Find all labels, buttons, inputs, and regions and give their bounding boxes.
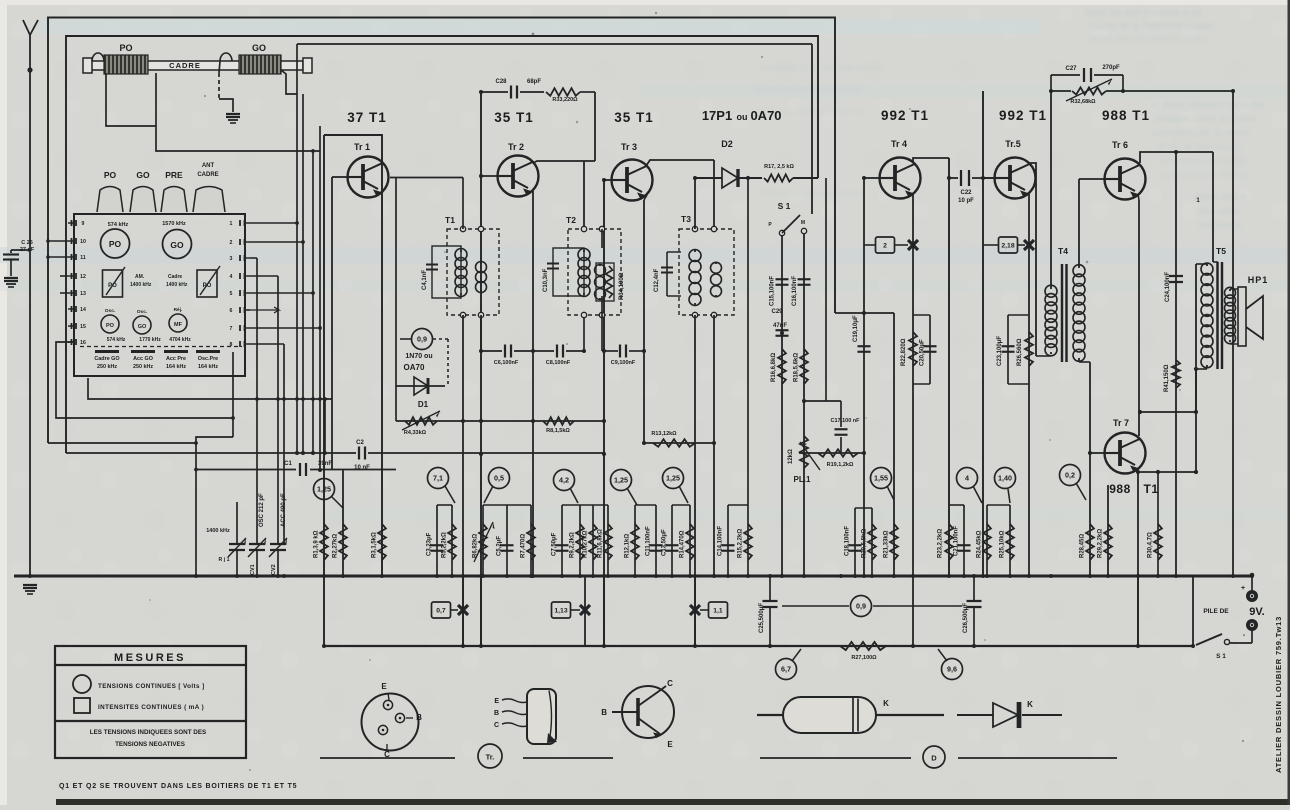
svg-text:B: B [494, 710, 499, 717]
svg-text:R j 1: R j 1 [219, 557, 230, 563]
svg-text:Osc.: Osc. [105, 308, 115, 314]
svg-text:2: 2 [230, 240, 233, 246]
svg-text:E: E [494, 698, 499, 705]
svg-text:R4,33kΩ: R4,33kΩ [404, 430, 427, 436]
svg-text:35 T1: 35 T1 [494, 110, 534, 125]
svg-text:5: 5 [230, 291, 233, 297]
svg-text:7: 7 [230, 326, 233, 332]
svg-text:0,5: 0,5 [494, 474, 504, 483]
svg-text:PO: PO [109, 239, 122, 249]
svg-text:574 kHz: 574 kHz [108, 222, 129, 228]
svg-text:9,6: 9,6 [947, 665, 957, 674]
svg-text:E: E [667, 740, 673, 749]
svg-text:10: 10 [80, 239, 86, 245]
svg-text:C27: C27 [1065, 66, 1077, 72]
svg-text:radio et à l'électronique: radio et à l'électronique [1090, 20, 1213, 32]
svg-text:abonnez-vous dès: abonnez-vous dès [1160, 156, 1248, 167]
svg-text:1400 kHz: 1400 kHz [206, 528, 230, 534]
svg-text:LES TENSIONS INDIQUEES SONT: LES TENSIONS INDIQUEES SONT DES [90, 729, 207, 736]
svg-text:250 kHz: 250 kHz [97, 364, 117, 370]
svg-text:S 1: S 1 [778, 201, 791, 211]
svg-text:C16,100nF: C16,100nF [792, 276, 798, 306]
svg-text:Acc Pre: Acc Pre [166, 356, 186, 362]
svg-text:6,7: 6,7 [781, 665, 791, 674]
svg-text:R11,6,8kΩ: R11,6,8kΩ [598, 529, 604, 558]
svg-text:C25,500μF: C25,500μF [759, 603, 765, 633]
svg-text:OSC 212 pF: OSC 212 pF [259, 493, 265, 527]
svg-text:68pF: 68pF [527, 79, 541, 85]
svg-text:réalisation des amateurs: réalisation des amateurs [758, 188, 864, 198]
svg-text:16: 16 [80, 340, 86, 346]
svg-text:complète de la radio: complète de la radio [1152, 128, 1249, 139]
svg-text:Radio Plans: Radio Plans [1195, 192, 1247, 202]
svg-text:992 T1: 992 T1 [881, 108, 929, 123]
svg-text:1,40: 1,40 [998, 474, 1012, 483]
svg-text:10 pF: 10 pF [958, 198, 974, 204]
svg-text:C29: C29 [771, 309, 783, 315]
svg-text:6: 6 [230, 308, 233, 314]
svg-text:R18,5,6kΩ: R18,5,6kΩ [794, 353, 800, 382]
svg-text:E: E [381, 682, 387, 691]
svg-text:2,18: 2,18 [1001, 243, 1014, 250]
svg-text:12kΩ: 12kΩ [788, 449, 794, 464]
svg-text:CADRE: CADRE [197, 172, 218, 178]
svg-text:12: 12 [80, 274, 86, 280]
svg-text:988: 988 [1109, 482, 1131, 496]
svg-text:R23,2,2kΩ: R23,2,2kΩ [938, 529, 944, 558]
svg-text:T4: T4 [1058, 246, 1068, 256]
svg-text:vous les trouverez dans: vous les trouverez dans [1088, 33, 1208, 45]
svg-text:C4,1nF: C4,1nF [422, 270, 428, 290]
svg-text:ou: ou [737, 112, 748, 122]
svg-text:PL.1: PL.1 [794, 475, 811, 484]
svg-text:C21,100nF: C21,100nF [954, 526, 960, 556]
svg-text:R15,2,2kΩ: R15,2,2kΩ [738, 529, 744, 558]
svg-text:C28: C28 [495, 79, 507, 85]
svg-text:35 T1: 35 T1 [614, 110, 654, 125]
svg-text:C20,50μF: C20,50μF [920, 339, 926, 366]
svg-text:C 26: C 26 [21, 240, 33, 246]
svg-text:0,7: 0,7 [436, 608, 446, 615]
svg-text:MESURES: MESURES [114, 652, 186, 664]
svg-text:R30,4,7Ω: R30,4,7Ω [1148, 532, 1154, 558]
svg-text:R25,10kΩ: R25,10kΩ [1000, 530, 1006, 558]
svg-text:CADRE: CADRE [169, 61, 201, 70]
svg-text:ANT: ANT [202, 163, 215, 169]
svg-text:CV2: CV2 [271, 564, 277, 575]
svg-text:INTENSITES CONTINUES ( mA: INTENSITES CONTINUES ( mA ) [98, 704, 204, 711]
svg-text:chaque mois la revue: chaque mois la revue [1155, 114, 1257, 125]
svg-text:C14,100nF: C14,100nF [718, 526, 724, 556]
svg-text:574 kHz: 574 kHz [107, 337, 126, 343]
svg-text:1,25: 1,25 [614, 476, 628, 485]
svg-text:ATELIER DESSIN LOUBIER 759.: ATELIER DESSIN LOUBIER 759.Tw13 [1274, 616, 1283, 773]
svg-text:0,9: 0,9 [856, 602, 866, 611]
svg-text:270pF: 270pF [1102, 65, 1120, 71]
svg-text:Tr 6: Tr 6 [1112, 140, 1128, 150]
svg-text:1,25: 1,25 [666, 474, 680, 483]
svg-text:C17,100 nF: C17,100 nF [830, 418, 860, 424]
svg-text:+: + [1241, 585, 1245, 592]
svg-text:D2: D2 [721, 139, 733, 149]
svg-text:tout ce qui touche à la: tout ce qui touche à la [1085, 7, 1202, 19]
svg-text:B: B [416, 713, 422, 722]
svg-text:R17, 2,5 kΩ: R17, 2,5 kΩ [764, 164, 794, 170]
svg-text:7,1: 7,1 [433, 474, 443, 483]
svg-text:Osc.Pre: Osc.Pre [198, 356, 218, 362]
svg-text:R24,45kΩ: R24,45kΩ [977, 530, 983, 558]
svg-text:HP1: HP1 [1248, 275, 1269, 285]
svg-text:1,25: 1,25 [317, 485, 331, 494]
svg-text:C9,100nF: C9,100nF [611, 360, 636, 366]
svg-text:Tr 1: Tr 1 [354, 142, 370, 152]
svg-text:3: 3 [230, 256, 233, 262]
svg-text:C11,100nF: C11,100nF [646, 526, 652, 556]
svg-text:aujourd'hui même: aujourd'hui même [1162, 170, 1248, 181]
svg-text:1,1: 1,1 [713, 608, 723, 615]
svg-text:C: C [667, 679, 673, 688]
svg-text:T3: T3 [681, 214, 691, 224]
svg-text:Tr 2: Tr 2 [508, 142, 524, 152]
svg-text:Réj.: Réj. [174, 307, 183, 313]
svg-text:R28,45Ω: R28,45Ω [1080, 534, 1086, 558]
svg-text:récepteur ont été étudiés: récepteur ont été étudiés [755, 84, 862, 94]
svg-text:0,2: 0,2 [1065, 471, 1075, 480]
svg-text:ACC 490 pF: ACC 490 pF [281, 493, 287, 527]
svg-text:GO: GO [136, 170, 150, 180]
svg-text:27 pF: 27 pF [20, 247, 35, 253]
svg-text:PO: PO [119, 43, 132, 53]
svg-text:992 T1: 992 T1 [999, 108, 1047, 123]
svg-text:1570 kHz: 1570 kHz [162, 221, 186, 227]
svg-text:R26,560Ω: R26,560Ω [1017, 338, 1023, 366]
svg-text:AM.: AM. [135, 274, 145, 280]
svg-text:montage et le câblage de ce: montage et le câblage de ce [760, 62, 880, 72]
svg-text:C7,50μF: C7,50μF [552, 532, 558, 556]
svg-text:R2,27kΩ: R2,27kΩ [333, 534, 339, 558]
svg-text:C3,23μF: C3,23μF [427, 532, 433, 556]
svg-text:9: 9 [82, 221, 85, 227]
svg-text:C13,50μF: C13,50μF [662, 529, 668, 556]
svg-text:R29,2,2kΩ: R29,2,2kΩ [1098, 529, 1104, 558]
svg-text:PILE DE: PILE DE [1203, 608, 1229, 615]
svg-text:T5: T5 [1216, 246, 1226, 256]
svg-text:GO: GO [138, 324, 147, 330]
svg-text:R16,6,8kΩ: R16,6,8kΩ [771, 353, 777, 382]
svg-text:Cadre GO: Cadre GO [94, 356, 119, 362]
svg-text:R6,82kΩ: R6,82kΩ [473, 534, 479, 558]
svg-text:C5,2μF: C5,2μF [497, 536, 503, 556]
svg-text:Tr.: Tr. [486, 753, 495, 762]
svg-text:C: C [494, 722, 499, 729]
svg-text:4: 4 [230, 274, 233, 280]
svg-text:0A70: 0A70 [750, 108, 781, 123]
svg-text:marchand: marchand [1198, 220, 1241, 230]
svg-text:GO: GO [252, 43, 266, 53]
svg-text:4704 kHz: 4704 kHz [169, 337, 191, 343]
svg-text:R7,470Ω: R7,470Ω [521, 534, 527, 558]
svg-text:D1: D1 [418, 400, 429, 409]
svg-text:R22,820Ω: R22,820Ω [901, 338, 907, 366]
svg-text:C1: C1 [284, 461, 292, 467]
svg-text:C2: C2 [356, 440, 364, 446]
svg-text:1400 kHz: 1400 kHz [130, 282, 152, 288]
svg-text:Tr.5: Tr.5 [1005, 139, 1021, 149]
svg-text:R13,12kΩ: R13,12kΩ [651, 431, 677, 437]
svg-text:TENSIONS NEGATIVES: TENSIONS NEGATIVES [115, 741, 185, 748]
svg-text:GO: GO [170, 240, 184, 250]
svg-text:Tr 4: Tr 4 [891, 139, 907, 149]
svg-text:R27,100Ω: R27,100Ω [851, 655, 877, 661]
svg-text:T2: T2 [566, 215, 576, 225]
svg-text:4: 4 [965, 474, 969, 483]
svg-text:C18,100nF: C18,100nF [845, 526, 851, 556]
svg-text:M: M [801, 220, 805, 226]
svg-text:C24,100nF: C24,100nF [1165, 272, 1171, 302]
svg-text:14: 14 [80, 307, 86, 313]
svg-text:K: K [1027, 700, 1033, 709]
svg-text:C26,500μF: C26,500μF [963, 603, 969, 633]
svg-text:988 T1: 988 T1 [1102, 108, 1150, 123]
svg-text:K: K [883, 699, 889, 708]
svg-text:Si vous désirez recevoir: Si vous désirez recevoir [1150, 100, 1265, 111]
svg-text:C6,100nF: C6,100nF [494, 360, 519, 366]
svg-text:R14,470Ω: R14,470Ω [680, 530, 686, 558]
svg-text:R34,100Ω: R34,100Ω [619, 272, 625, 300]
svg-text:R5,2,2kΩ: R5,2,2kΩ [442, 532, 448, 558]
svg-text:37 T1: 37 T1 [347, 110, 387, 125]
svg-text:Cadre: Cadre [168, 274, 182, 280]
svg-text:10 nF: 10 nF [354, 465, 370, 471]
svg-text:C23,100μF: C23,100μF [997, 336, 1003, 366]
svg-text:1400 kHz: 1400 kHz [166, 282, 188, 288]
svg-text:Acc GO: Acc GO [133, 356, 153, 362]
svg-text:13: 13 [80, 291, 86, 297]
svg-text:1,55: 1,55 [874, 474, 888, 483]
svg-text:39nF: 39nF [318, 461, 332, 467]
svg-text:C8,100nF: C8,100nF [546, 360, 571, 366]
svg-text:4,2: 4,2 [559, 476, 569, 485]
svg-text:1770 kHz: 1770 kHz [139, 337, 161, 343]
svg-text:C19,10μF: C19,10μF [853, 315, 859, 342]
svg-text:T1: T1 [445, 215, 455, 225]
svg-text:C10,3nF: C10,3nF [543, 268, 549, 292]
svg-text:D: D [931, 754, 937, 763]
svg-text:1: 1 [230, 221, 233, 227]
svg-text:R41,150Ω: R41,150Ω [1164, 364, 1170, 392]
svg-text:C22: C22 [960, 190, 972, 196]
svg-text:R33,220Ω: R33,220Ω [552, 97, 578, 103]
svg-text:R32,68kΩ: R32,68kΩ [1070, 99, 1096, 105]
svg-text:15: 15 [80, 324, 86, 330]
svg-text:OA70: OA70 [404, 363, 425, 372]
svg-text:Osc.: Osc. [137, 309, 147, 315]
svg-text:250 kHz: 250 kHz [133, 364, 153, 370]
svg-text:C15,100nF: C15,100nF [770, 276, 776, 306]
svg-text:1N70 ou: 1N70 ou [405, 353, 432, 360]
svg-text:TENSIONS CONTINUES [ Vol: TENSIONS CONTINUES [ Volts ] [98, 683, 205, 690]
svg-text:CV1: CV1 [250, 564, 256, 575]
svg-text:C12,4nF: C12,4nF [654, 268, 660, 292]
svg-text:R19,1,2kΩ: R19,1,2kΩ [827, 462, 854, 468]
svg-text:PO: PO [106, 323, 115, 329]
svg-text:PRE: PRE [165, 170, 183, 180]
svg-text:1,13: 1,13 [554, 608, 567, 615]
svg-text:Tr 7: Tr 7 [1113, 418, 1129, 428]
svg-text:164 kHz: 164 kHz [198, 364, 218, 370]
svg-text:R9,2,2kΩ: R9,2,2kΩ [570, 532, 576, 558]
svg-text:R8,1,5kΩ: R8,1,5kΩ [546, 428, 570, 434]
svg-text:T1: T1 [1143, 482, 1158, 496]
svg-text:MF: MF [174, 322, 183, 328]
svg-text:B: B [601, 708, 607, 717]
svg-text:17P1: 17P1 [702, 108, 732, 123]
svg-text:R1,3,9 kΩ: R1,3,9 kΩ [314, 530, 320, 558]
svg-text:PO: PO [104, 170, 117, 180]
svg-text:Tr 3: Tr 3 [621, 142, 637, 152]
svg-text:11: 11 [80, 255, 86, 261]
svg-text:164 kHz: 164 kHz [166, 364, 186, 370]
svg-text:S 1: S 1 [1216, 653, 1226, 660]
svg-text:2: 2 [883, 243, 887, 250]
svg-text:R21,33kΩ: R21,33kΩ [884, 530, 890, 558]
svg-text:9V.: 9V. [1249, 606, 1265, 618]
svg-text:R20,6,8kΩ: R20,6,8kΩ [862, 529, 868, 558]
svg-text:R12,1kΩ: R12,1kΩ [625, 534, 631, 558]
svg-text:0,9: 0,9 [417, 335, 427, 344]
svg-text:47nF: 47nF [773, 323, 787, 329]
svg-text:R10,27kΩ: R10,27kΩ [583, 530, 589, 558]
svg-text:R3,1,5kΩ: R3,1,5kΩ [372, 532, 378, 558]
svg-text:Q1 ET Q2 SE TROUVENT DANS: Q1 ET Q2 SE TROUVENT DANS LES BOITIERS D… [59, 783, 297, 790]
